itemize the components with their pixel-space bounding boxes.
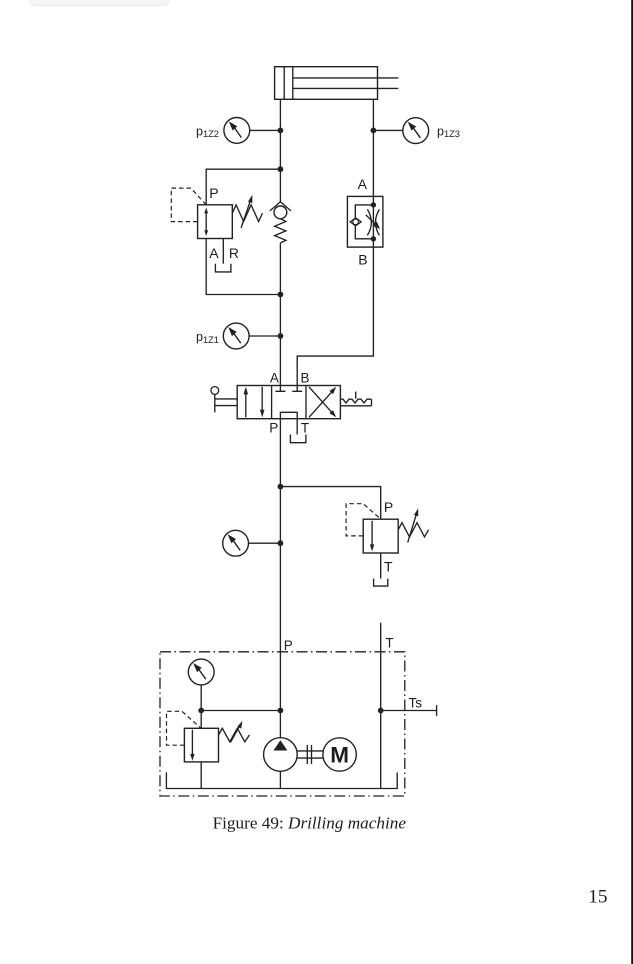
wire: reducing valve A port to main line (206, 239, 280, 295)
one-way flow control valve (ports A/B) (347, 176, 383, 268)
hydraulic pump (264, 738, 298, 772)
label T at power unit return (385, 636, 393, 651)
node: p1Z3 tee junction (371, 127, 377, 133)
wire: Ts test stub (381, 705, 437, 716)
node: p1Z1 tee junction (278, 333, 284, 339)
svg-text:P: P (209, 185, 218, 201)
wire: pump pressure line P up to directional valve (279, 419, 281, 738)
svg-text:Figure 49: Drilling machine: Figure 49: Drilling machine (213, 813, 407, 832)
wire: gauge p1Z2 to main line (250, 129, 281, 131)
svg-text:A: A (270, 371, 279, 386)
svg-text:R: R (229, 245, 239, 261)
roller/plunger actuator on directional valve (211, 387, 237, 413)
node: reducing valve return tee (278, 292, 284, 298)
wire: branch from main line to reducing valve P (206, 169, 280, 205)
node: power unit branch tee left (198, 708, 204, 714)
node: p1Z2 tee junction (278, 127, 284, 133)
power unit pressure relief valve (167, 711, 250, 762)
pressure relief valve (ports P/T) (346, 499, 429, 575)
pressure gauge (power unit) (188, 659, 214, 685)
shaft coupling (297, 745, 323, 764)
svg-text:T: T (385, 636, 393, 651)
wire: branch to pressure relief valve (280, 487, 380, 520)
electric motor M (323, 738, 356, 771)
pressure reducing valve (ports P/A/R) (171, 185, 262, 261)
node: Ts tee junction (378, 708, 384, 714)
node: branch tee junction (278, 166, 284, 172)
svg-text:B: B (358, 251, 367, 267)
wire: return line T down to reservoir (380, 623, 382, 789)
node: power unit branch tee right (278, 708, 284, 714)
pressure gauge p1Z3 (403, 118, 460, 144)
wire: cylinder rod-side port through flow control to valve port B (297, 99, 373, 385)
node: relief branch tee (278, 484, 284, 490)
svg-text:A: A (358, 176, 368, 192)
svg-text:P: P (269, 421, 278, 436)
wire: relief valve to reservoir (200, 762, 202, 789)
svg-text:15: 15 (588, 886, 607, 907)
spring return on directional valve (340, 392, 371, 406)
wire: into power unit relief valve (200, 711, 202, 729)
wire: gauge p1Z3 to rod-side line (373, 129, 403, 131)
svg-text:P: P (284, 638, 293, 653)
label P at power unit inlet (284, 638, 293, 653)
wire: relief branch inside power unit (201, 710, 280, 712)
svg-text:P: P (384, 499, 393, 515)
cylinder 1A (double-acting) (275, 67, 399, 100)
wire: gauge p1Z1 to main line (249, 335, 280, 337)
wire: power unit gauge drop (200, 685, 202, 710)
svg-text:A: A (209, 245, 219, 261)
label Ts (409, 695, 423, 710)
svg-text:M: M (330, 742, 349, 767)
tank symbol under R port (215, 264, 231, 272)
caption: Figure 49 Drilling machine (213, 813, 407, 832)
wire: check valve to directional valve port A (279, 243, 281, 386)
node: gauge tee junction (278, 540, 284, 546)
wire: cylinder piston-side port down to check valve (279, 99, 281, 202)
svg-text:T: T (384, 559, 393, 575)
4/3 directional valve U1 (237, 371, 340, 436)
reservoir (open tank) (166, 772, 397, 788)
page number 15 (588, 886, 607, 907)
svg-text:T: T (301, 421, 309, 436)
wire: directional valve T port to tank (296, 419, 298, 435)
wire: gauge to pump line (249, 542, 281, 544)
pressure gauge (pump line) (223, 530, 249, 556)
svg-text:Ts: Ts (409, 695, 423, 710)
spring-loaded check valve (270, 202, 291, 243)
power unit enclosure (dash-dot) (160, 652, 405, 796)
wire: reducing valve R port to tank (222, 239, 224, 264)
wire: relief valve T port to tank (380, 553, 382, 579)
tank symbol under relief valve (374, 579, 388, 587)
pressure gauge p1Z2 (196, 117, 250, 143)
wire: pump suction to reservoir (279, 771, 281, 788)
pressure gauge p1Z1 (196, 323, 249, 349)
tank symbol under directional valve T (290, 435, 306, 443)
svg-text:B: B (301, 371, 310, 386)
